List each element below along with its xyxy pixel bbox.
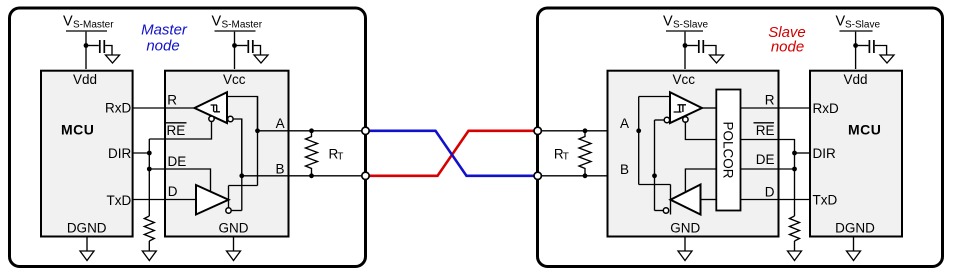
wire driver inverting output to B — [231, 210, 242, 212]
supply rail bar V S-Master (left) — [66, 30, 107, 32]
svg-text:DE: DE — [168, 154, 187, 169]
polarity corrector POLCOR — [716, 90, 740, 211]
svg-text:Vdd: Vdd — [844, 72, 868, 87]
driver output bar (U2) — [228, 186, 230, 209]
wire to capacitor C1 — [86, 45, 99, 47]
svg-text:S-Master: S-Master — [222, 20, 263, 31]
ground (C1) — [106, 55, 120, 63]
wire capacitor C1 to ground — [105, 46, 112, 55]
wire to capacitor C4 — [856, 45, 869, 47]
terminal B (master) — [362, 172, 369, 179]
inverting output bubble (driver U2) — [226, 208, 231, 213]
supply rail bar V S-Slave (right) — [840, 30, 873, 32]
node junction B — [239, 173, 244, 178]
svg-text:S-Slave: S-Slave — [673, 20, 708, 31]
wire DE to driver enable (slave) — [685, 169, 716, 192]
wire RE/DE tie vertical — [148, 139, 150, 216]
overline of RE (U3) — [754, 122, 775, 124]
label RT (master) — [329, 147, 344, 163]
supply label V S-Slave (above transceiver) — [663, 14, 708, 31]
capacitor C2 (decoupling) — [248, 40, 253, 53]
svg-text:B: B — [275, 161, 284, 176]
wire driver output to A — [229, 185, 258, 187]
svg-text:RxD: RxD — [813, 101, 839, 116]
wire U4 DGND to ground — [853, 238, 855, 252]
svg-text:D: D — [765, 185, 775, 200]
wire cable A (blue, crossover) — [366, 131, 538, 176]
wire D from POLCOR to TxD — [741, 199, 811, 201]
wire line A — [258, 130, 366, 132]
svg-text:DGND: DGND — [67, 221, 107, 236]
node junction A — [255, 128, 260, 133]
svg-text:B: B — [620, 162, 629, 177]
ground (R2) — [788, 251, 802, 261]
MCU U1 (master) — [41, 71, 133, 237]
wire A vertical (slave) — [638, 97, 640, 185]
wire R1 to ground — [148, 241, 150, 251]
svg-text:DE: DE — [756, 152, 775, 167]
wire receiver inverting input to B — [233, 119, 242, 176]
svg-text:A: A — [276, 116, 285, 131]
wire U2 GND to ground — [233, 237, 235, 251]
svg-text:T: T — [337, 151, 343, 162]
wire DE from POLCOR — [741, 168, 795, 170]
svg-text:Vcc: Vcc — [673, 72, 696, 87]
wire Vs-Master to transceiver Vcc — [234, 32, 236, 69]
node junction on Vcc feed — [232, 43, 237, 48]
wire capacitor C2 to ground — [254, 46, 261, 55]
ground (U1 DGND) — [80, 251, 94, 261]
svg-text:Master: Master — [141, 22, 188, 39]
svg-text:MCU: MCU — [61, 122, 94, 138]
wire capacitor C3 to ground — [704, 46, 716, 55]
driver output bar (U3) — [670, 185, 672, 215]
svg-text:GND: GND — [670, 221, 700, 236]
terminal B (slave) — [534, 172, 541, 179]
ground (C3) — [710, 55, 724, 63]
enable bubble RE (receiver U3) — [683, 117, 688, 122]
wire R from POLCOR to RxD — [741, 107, 811, 109]
ground (U3 GND) — [678, 251, 692, 261]
wire RE from POLCOR — [741, 140, 795, 217]
wire U3 GND to ground — [684, 237, 686, 251]
wire U1 DGND to ground — [86, 238, 88, 252]
node junction on Vcc feed (slave) — [683, 43, 688, 48]
termination resistor RT (master) — [306, 131, 318, 176]
wire driver inverting output to B (slave) — [655, 210, 664, 212]
overline of RE (U2) — [166, 122, 187, 124]
wire DE to driver enable — [149, 169, 210, 192]
pulldown resistor R1 (DIR bias) — [144, 216, 154, 241]
supply label V S-Master (above transceiver) — [212, 14, 263, 31]
wire receiver inverting input to B (slave) — [655, 119, 665, 121]
ground (U2 GND) — [227, 251, 241, 261]
node junction DE tap (slave) — [792, 167, 797, 172]
MCU U4 (slave) — [810, 71, 902, 237]
wire DIR from MCU (slave) — [795, 152, 811, 154]
ground (C4) — [880, 55, 894, 63]
wire receiver input from A (slave) — [639, 96, 670, 98]
wire B vertical (slave) — [654, 120, 656, 211]
wire DIR from MCU — [133, 152, 150, 154]
svg-text:A: A — [620, 116, 629, 131]
wire Vs-Slave to MCU Vdd — [855, 32, 857, 69]
label Slave node — [768, 24, 806, 56]
svg-text:node: node — [771, 39, 804, 56]
svg-text:DGND: DGND — [835, 221, 875, 236]
capacitor C4 (decoupling) — [869, 40, 874, 53]
node junction A at RT1 — [309, 128, 314, 133]
supply label V S-Slave (above MCU) — [836, 14, 881, 31]
terminal A (master) — [362, 127, 369, 134]
svg-text:DIR: DIR — [813, 146, 837, 161]
driver gate (U2) — [196, 185, 229, 215]
svg-text:S-Slave: S-Slave — [845, 20, 880, 31]
node junction B at RT2 — [583, 173, 588, 178]
wire to capacitor C2 — [235, 45, 248, 47]
svg-text:TxD: TxD — [107, 193, 132, 208]
svg-text:R: R — [167, 93, 177, 108]
slave node enclosure box — [538, 8, 943, 267]
svg-text:node: node — [146, 38, 179, 55]
wire cable B (red, crossover) — [366, 131, 538, 176]
node junction on Vdd feed (slave) — [853, 43, 858, 48]
wire receiver output to POLCOR — [702, 107, 716, 109]
capacitor C3 (decoupling) — [699, 40, 704, 53]
ground (R1) — [142, 251, 156, 261]
hysteresis symbol (receiver U3) — [674, 105, 686, 112]
supply rail bar V S-Slave (left) — [666, 30, 703, 32]
terminal A (slave) — [534, 127, 541, 134]
ground (C2) — [254, 55, 268, 63]
wire line B — [242, 175, 366, 177]
inverting output bubble (driver U3) — [663, 208, 668, 213]
supply rail bar V S-Master (above transceiver) — [215, 30, 256, 32]
svg-text:RxD: RxD — [105, 101, 131, 116]
svg-text:D: D — [168, 184, 178, 199]
ground (U4 DGND) — [847, 251, 861, 261]
wire D from POLCOR to driver input — [701, 199, 717, 201]
master node enclosure box — [10, 8, 366, 267]
pulldown resistor R2 (DIR bias, slave) — [790, 216, 800, 241]
node junction A (slave) — [636, 128, 641, 133]
svg-text:S-Master: S-Master — [73, 20, 114, 31]
inverting input bubble (receiver U2) — [228, 116, 233, 121]
svg-text:Vcc: Vcc — [223, 72, 246, 87]
svg-text:POLCOR: POLCOR — [721, 121, 736, 178]
svg-text:V: V — [663, 14, 673, 30]
wire Vs-Slave to transceiver Vcc — [684, 32, 686, 69]
svg-text:T: T — [563, 151, 569, 162]
transceiver U3 (slave RS-485) — [608, 71, 779, 237]
svg-text:MCU: MCU — [848, 122, 881, 138]
label RT (slave) — [554, 147, 569, 163]
node junction B at RT1 — [309, 173, 314, 178]
wire Vs-Master to MCU Vdd — [85, 32, 87, 69]
inverting input bubble (receiver U3) — [664, 117, 669, 122]
enable bubble RE (receiver U2) — [209, 116, 214, 121]
svg-text:Vdd: Vdd — [73, 72, 97, 87]
svg-text:RE: RE — [756, 123, 775, 138]
wire R2 to ground — [794, 241, 796, 251]
node junction DIR tie (slave) — [792, 151, 797, 156]
supply label V S-Master (left) — [63, 14, 114, 31]
wire line A (slave side) — [538, 130, 639, 132]
node junction A at RT2 — [583, 128, 588, 133]
node junction B (slave) — [652, 173, 657, 178]
node junction DE tap — [147, 167, 152, 172]
svg-text:V: V — [212, 14, 222, 30]
wire capacitor C4 to ground — [875, 46, 887, 55]
svg-text:GND: GND — [219, 221, 249, 236]
svg-text:V: V — [836, 14, 846, 30]
wire driver output to A (slave) — [639, 184, 671, 186]
svg-text:R: R — [765, 93, 775, 108]
wire RE enable (slave) — [685, 121, 716, 139]
svg-text:DIR: DIR — [108, 146, 132, 161]
wire to capacitor C3 — [685, 45, 698, 47]
wire RxD to R — [133, 107, 195, 109]
driver gate (U3) — [671, 185, 701, 215]
wire A vertical — [257, 97, 259, 186]
receiver gate (U3) — [670, 92, 702, 123]
wire receiver input from A — [227, 97, 258, 131]
capacitor C1 (decoupling) — [100, 40, 105, 53]
termination resistor RT (slave) — [579, 131, 591, 176]
label Master node — [141, 22, 188, 55]
transceiver U2 (master RS-485) — [165, 71, 289, 237]
wire RE enable — [149, 121, 211, 139]
svg-text:TxD: TxD — [813, 192, 838, 207]
svg-text:RE: RE — [167, 123, 186, 138]
wire line B (slave side) — [538, 175, 655, 177]
wire TxD to D — [133, 199, 196, 201]
wire B vertical — [241, 119, 243, 211]
hysteresis symbol (receiver U2) — [211, 105, 220, 112]
receiver gate (U2) — [195, 92, 228, 123]
node junction on Vdd feed — [84, 43, 89, 48]
svg-text:V: V — [63, 14, 73, 30]
node junction DIR/RE/DE tie — [147, 151, 152, 156]
